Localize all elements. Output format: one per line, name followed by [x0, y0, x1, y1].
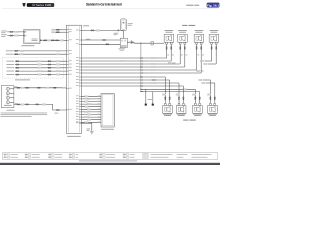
wire label — [152, 57, 156, 59]
radio pin — [76, 84, 82, 87]
wire label — [62, 87, 65, 89]
front speaker — [209, 34, 219, 42]
supply wire to fuse — [82, 29, 124, 31]
radio pin — [76, 121, 82, 124]
radio pin — [76, 118, 82, 121]
wire label — [38, 60, 42, 62]
rear speaker run wire — [141, 91, 200, 93]
legend text — [192, 156, 208, 159]
wire code — [167, 54, 169, 57]
option wire to radio — [15, 67, 66, 69]
speaker label — [166, 31, 173, 34]
speaker pin — [199, 103, 201, 105]
amplifier pin — [98, 102, 101, 105]
radio wire to relay — [82, 43, 121, 45]
enclosure caption — [15, 78, 30, 81]
wire label — [56, 70, 60, 72]
relay wire label — [86, 38, 91, 41]
legend text — [192, 153, 212, 156]
legend text — [151, 153, 173, 156]
amplifier wire — [82, 119, 102, 121]
CD changer element — [6, 96, 9, 99]
radio pin — [66, 52, 71, 55]
run connector mark — [142, 66, 144, 69]
inline connector — [16, 61, 19, 62]
front speaker — [178, 34, 188, 42]
radio pin — [66, 30, 71, 33]
inline connector — [16, 70, 19, 71]
rear speaker drop wire — [214, 83, 216, 103]
wire label — [56, 50, 60, 52]
wire label — [152, 69, 156, 71]
wire code label — [114, 32, 119, 35]
run connector mark — [142, 72, 144, 75]
junction — [140, 57, 141, 58]
option wire label — [6, 63, 14, 66]
ground label — [148, 98, 153, 101]
radio pin — [66, 28, 71, 31]
amplifier wire label — [85, 111, 89, 113]
legend key box — [72, 157, 75, 159]
legend text — [177, 156, 184, 159]
wire label — [21, 104, 24, 106]
amplifier wire label — [85, 106, 89, 108]
inline connector — [183, 97, 184, 100]
inline connector — [210, 97, 211, 100]
wire code — [197, 54, 199, 57]
rear speaker drop wire — [164, 77, 166, 103]
rear speaker drop wire — [209, 80, 211, 103]
jog label — [204, 63, 208, 65]
wire label — [21, 87, 24, 89]
harness label — [52, 31, 56, 33]
publication note — [186, 5, 193, 6]
CD internal wire — [10, 101, 14, 103]
inline connector — [16, 64, 19, 65]
speaker label — [163, 113, 172, 116]
speaker jog wire — [205, 60, 212, 62]
bend label text — [172, 62, 175, 65]
rear speaker run wire — [141, 88, 195, 90]
inline connector — [48, 67, 51, 68]
option wire label — [6, 70, 14, 73]
wire label — [20, 50, 24, 52]
wire label — [152, 79, 156, 81]
speaker drop wire — [170, 44, 172, 61]
inline connector — [26, 104, 29, 105]
speaker drop wire — [215, 44, 217, 64]
CD internal label — [4, 104, 12, 107]
drop label — [192, 94, 195, 95]
inline connector — [56, 32, 59, 33]
speaker label — [177, 113, 186, 116]
speaker pin — [169, 103, 171, 105]
jog label — [202, 82, 206, 84]
legend symbol — [123, 157, 126, 158]
speaker pin — [196, 42, 198, 44]
instrument pack box — [24, 30, 40, 44]
rear speaker drop wire — [169, 80, 171, 103]
speaker label — [178, 114, 185, 117]
option wire label — [6, 66, 14, 69]
legend symbol — [4, 154, 7, 155]
footer legend bar — [3, 152, 218, 159]
rear speaker drop wire — [194, 89, 196, 103]
radio pin — [76, 113, 82, 116]
CD autochanger box — [1, 86, 14, 108]
wire label — [38, 67, 42, 69]
legend symbol — [49, 157, 52, 158]
rear speaker run wire — [82, 79, 170, 81]
relay label — [120, 49, 125, 52]
wire — [40, 39, 67, 41]
legend text — [55, 156, 62, 159]
radio pin — [76, 38, 82, 41]
dashed optional-equipment enclosure — [2, 58, 63, 78]
rear speaker drop wire — [199, 92, 201, 104]
legend symbol — [4, 157, 7, 158]
speaker run wire — [82, 72, 202, 74]
wire code — [172, 54, 174, 57]
amplifier pin — [98, 113, 101, 116]
radio pin — [76, 71, 82, 74]
wire label — [152, 66, 156, 68]
legend highlight cell — [143, 153, 148, 158]
amplifier wire label — [87, 98, 91, 100]
wire label — [56, 74, 60, 76]
legend text — [10, 153, 18, 156]
junction — [140, 89, 141, 90]
rear speaker — [163, 105, 173, 113]
radio pin — [66, 38, 71, 41]
amplifier wire label — [85, 116, 89, 118]
speaker drop wire — [184, 44, 186, 67]
legend symbol — [69, 157, 72, 158]
inline connector — [48, 74, 51, 75]
radio pin — [76, 110, 82, 113]
run connector mark — [142, 69, 144, 72]
radio cassette unit box — [66, 25, 81, 133]
inline connector — [91, 30, 94, 31]
wire label — [56, 64, 60, 66]
supply wire label — [83, 24, 89, 27]
rear speaker — [176, 105, 186, 113]
legend symbol — [25, 157, 28, 158]
speaker label — [195, 29, 204, 32]
fuse F15 — [121, 19, 127, 31]
inline connector — [10, 31, 13, 32]
legend text — [76, 153, 79, 156]
amplifier wire — [82, 114, 102, 116]
relay label — [119, 47, 126, 50]
inline connector — [16, 67, 19, 68]
rear speaker run wire — [82, 76, 166, 78]
speaker label — [211, 31, 218, 34]
rear speaker run wire — [82, 85, 184, 87]
rear speaker drop wire — [182, 86, 184, 103]
speaker run wire — [82, 66, 185, 68]
svg-text:Fig. 16.1: Fig. 16.1 — [207, 3, 219, 7]
legend text — [32, 156, 40, 159]
amplifier pin — [98, 108, 101, 111]
speaker label — [208, 113, 217, 116]
wire to radio — [14, 50, 67, 52]
wire label — [56, 53, 60, 55]
wire label — [152, 82, 156, 84]
speaker jog wire — [208, 63, 216, 65]
rear speaker jog wire — [203, 79, 210, 81]
run connector mark — [142, 60, 144, 63]
legend text — [10, 156, 18, 159]
option wire label — [6, 60, 14, 63]
speaker drop wire — [200, 44, 202, 73]
svg-text:XJ Series 1998: XJ Series 1998 — [32, 4, 52, 7]
wire code — [202, 54, 204, 57]
inline connector — [216, 46, 217, 49]
rear speakers heading — [183, 119, 188, 122]
rear speakers heading word — [189, 119, 195, 122]
speaker pin — [214, 103, 216, 105]
legend symbol — [100, 157, 103, 158]
issue date line — [79, 160, 137, 163]
legend key box — [7, 154, 10, 156]
inline connector — [211, 46, 212, 49]
amplifier wire — [82, 116, 102, 118]
legend symbol — [123, 154, 126, 155]
radio pin — [76, 120, 82, 123]
jog label — [199, 79, 203, 81]
amplifier pin — [98, 110, 101, 113]
speaker pin — [178, 103, 180, 105]
speaker pin — [211, 42, 213, 44]
radio ground wire — [82, 123, 92, 131]
wire label — [97, 30, 101, 32]
CD internal wire — [10, 92, 14, 94]
inline connector — [56, 29, 59, 30]
legend symbol — [25, 154, 28, 155]
speaker run wire — [82, 63, 181, 65]
inline connector — [53, 87, 56, 88]
inline connector — [131, 41, 132, 44]
radio pin — [66, 49, 71, 52]
legend key box — [72, 154, 75, 156]
wire code — [186, 54, 188, 57]
speaker pin — [166, 42, 168, 44]
legend text — [151, 156, 169, 159]
radio pin — [76, 65, 82, 68]
CD wire to radio — [14, 87, 67, 89]
amplifier wire — [82, 95, 102, 97]
wire label — [38, 74, 42, 76]
radio pin — [76, 107, 82, 110]
inline connector — [17, 104, 20, 105]
CD internal wire — [10, 88, 14, 90]
ground drop wire — [145, 89, 147, 103]
rear speaker run wire — [82, 82, 180, 84]
wire label — [20, 53, 24, 55]
instrument pack internal text — [32, 38, 38, 41]
speaker drop wire — [166, 44, 168, 58]
legend key box — [7, 157, 10, 159]
legend key box — [103, 157, 106, 159]
run connector mark — [142, 82, 144, 85]
wire label — [15, 31, 19, 33]
run connector mark — [142, 85, 144, 88]
fuse label — [128, 24, 132, 27]
inline connector — [165, 97, 166, 100]
wire label — [46, 87, 50, 89]
inline connector — [17, 87, 20, 88]
inline connector — [55, 40, 58, 41]
wire label — [38, 70, 42, 72]
radio pin — [76, 59, 82, 62]
feed wire to radio — [55, 31, 66, 33]
legend text — [106, 156, 115, 159]
ground symbol — [90, 131, 94, 135]
wire label — [47, 40, 51, 42]
amplifier pin — [98, 105, 101, 108]
inline connector — [44, 40, 47, 41]
wire to speaker feed — [154, 42, 164, 44]
inline connector — [51, 40, 54, 41]
speaker pin — [215, 42, 217, 44]
instrument pack internal text — [32, 39, 38, 42]
CD changer element — [6, 92, 9, 95]
inline connector — [15, 54, 18, 55]
inline connector — [201, 46, 202, 49]
inline connector — [106, 44, 109, 45]
speaker label — [193, 113, 202, 116]
speaker run wire — [82, 60, 172, 62]
window band — [0, 163, 220, 165]
speaker pin — [209, 103, 211, 105]
inline connector — [36, 104, 39, 105]
radio pin — [66, 69, 71, 72]
legend symbol — [100, 154, 103, 155]
run connector mark — [142, 79, 144, 82]
radio pin — [66, 66, 71, 69]
speaker pin — [194, 103, 196, 105]
amplifier wire label — [87, 109, 91, 111]
amplifier pin — [98, 95, 101, 98]
wire to instrument pack — [7, 35, 24, 37]
CD changer element — [6, 101, 9, 104]
speaker pin — [179, 42, 181, 44]
inline connector — [214, 97, 215, 100]
radio pin — [66, 108, 71, 111]
ground code label — [87, 128, 91, 131]
radio pin — [76, 56, 82, 59]
speaker label — [179, 31, 186, 34]
speaker label — [178, 29, 187, 32]
radio label — [67, 135, 81, 138]
speaker label — [196, 31, 203, 34]
speaker drop wire — [196, 44, 198, 70]
run connector mark — [142, 76, 144, 79]
radio pin — [76, 100, 82, 103]
legend key box — [103, 154, 106, 156]
speaker pin — [170, 42, 172, 44]
bend label — [196, 70, 199, 72]
legend key box — [126, 157, 129, 159]
figure number box — [207, 3, 220, 8]
wire label — [152, 63, 156, 65]
wire source label — [1, 30, 7, 33]
junction — [140, 66, 141, 67]
CD wire to radio stepped — [14, 104, 67, 110]
inline connector — [171, 46, 172, 49]
junction — [140, 85, 141, 86]
CD autochanger label — [7, 109, 15, 112]
legend key box — [126, 154, 129, 156]
speaker label — [194, 114, 201, 117]
inline connector — [16, 74, 19, 75]
option wire label — [6, 73, 14, 76]
inline connector — [37, 87, 40, 88]
drop label — [162, 94, 165, 95]
radio pin — [76, 75, 82, 78]
radio pin — [66, 87, 71, 90]
amplifier wire label — [85, 122, 89, 124]
front speaker — [164, 34, 174, 42]
feed wire to radio — [55, 29, 66, 31]
wire label — [43, 104, 47, 106]
jog label — [200, 60, 204, 62]
speaker drop wire — [211, 44, 213, 61]
inline connector — [48, 70, 51, 71]
harness label — [52, 29, 56, 31]
rear speaker drop wire — [178, 83, 180, 103]
radio pin — [76, 78, 82, 81]
inline connector — [10, 35, 13, 36]
instrument pack label — [22, 45, 35, 46]
fuse feed pin — [118, 30, 121, 31]
run connector mark — [142, 88, 144, 91]
amplifier wire — [82, 103, 102, 105]
wire source label — [1, 31, 5, 34]
wire source label — [1, 33, 7, 36]
speaker pin — [184, 42, 186, 44]
wire label — [56, 60, 60, 62]
radio pin — [66, 73, 71, 76]
legend text — [177, 153, 188, 156]
ground terminal — [152, 104, 154, 106]
speaker run wire — [82, 69, 197, 71]
radio pin — [76, 42, 82, 45]
wire label — [60, 40, 64, 42]
legend symbol — [49, 154, 52, 155]
ground terminal — [145, 104, 147, 106]
svg-text:Standard In-Car Entertainment: Standard In-Car Entertainment — [86, 3, 123, 7]
junction — [140, 43, 141, 44]
speaker label — [164, 114, 171, 117]
wire code — [181, 54, 183, 57]
option wire to radio — [15, 64, 66, 66]
legend text — [32, 153, 40, 156]
radio relay — [120, 38, 127, 47]
radio pin — [76, 81, 82, 84]
legend key box — [52, 154, 55, 156]
wire fuse to relay — [122, 31, 124, 39]
radio pin — [66, 63, 71, 66]
junction — [140, 76, 141, 77]
note mark — [55, 112, 59, 115]
radio pin — [76, 62, 82, 65]
speaker run wire — [82, 57, 167, 59]
rear speaker — [193, 105, 203, 113]
legend key box — [28, 157, 31, 159]
wire to instrument pack — [7, 31, 24, 33]
